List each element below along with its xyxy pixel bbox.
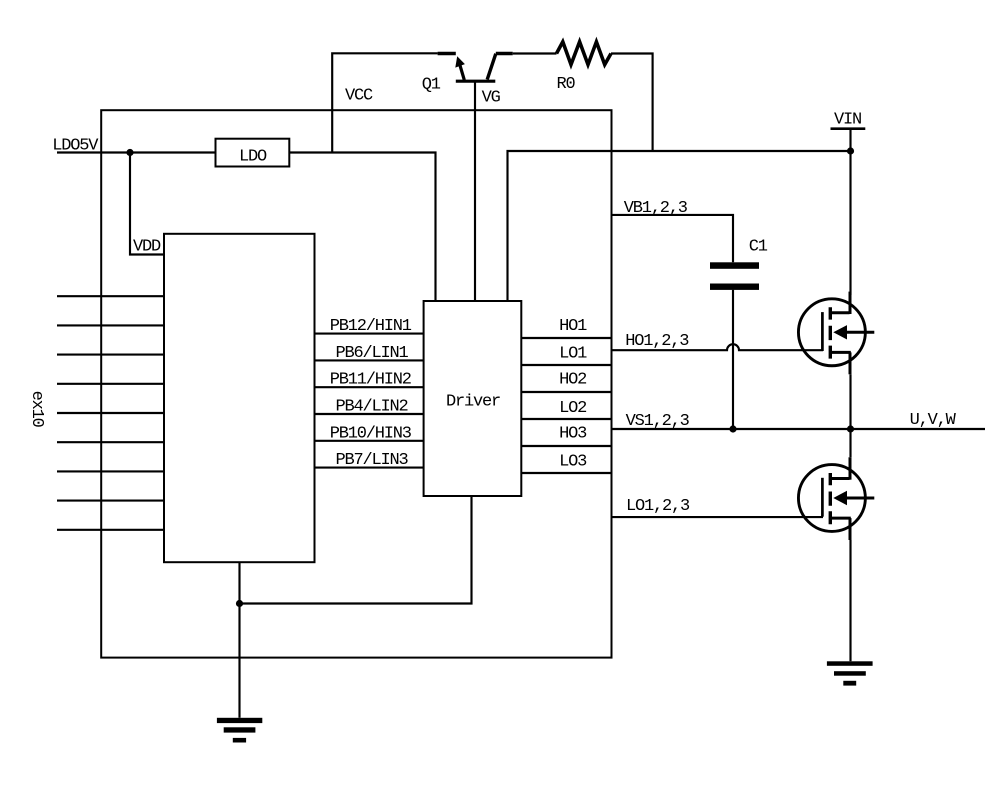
svg-text:LDO: LDO	[239, 148, 267, 167]
wire Q1 to R0	[513, 52, 557, 54]
transistor lower NMOS	[798, 457, 874, 540]
regulator LDO box	[216, 139, 290, 167]
node junction dot LDO5V/VDD	[126, 149, 133, 156]
wire PB12/HIN1	[315, 333, 424, 335]
wire PB10/HIN3	[315, 440, 424, 442]
wire LO1 stub	[521, 364, 611, 366]
wire VG	[474, 81, 476, 301]
wire LO2 stub	[521, 418, 611, 420]
capacitor C1	[710, 262, 759, 290]
wire HO2 stub	[521, 391, 611, 393]
wire lower NMOS source to ground	[849, 540, 851, 661]
wire LO3 stub	[521, 472, 611, 474]
svg-text:R0: R0	[557, 75, 576, 94]
svg-text:HO3: HO3	[559, 424, 587, 443]
svg-text:C1: C1	[749, 238, 768, 257]
wire driver ground	[240, 496, 472, 604]
wire input line 5	[57, 412, 164, 414]
svg-text:VB1,2,3: VB1,2,3	[624, 199, 688, 218]
svg-text:PB7/LIN3: PB7/LIN3	[336, 451, 409, 470]
wire upper NMOS source to VS	[849, 374, 851, 429]
wire input line 6	[57, 441, 164, 443]
svg-text:VDD: VDD	[133, 238, 161, 257]
wire PB11/HIN2	[315, 386, 424, 388]
wire input line 4	[57, 383, 164, 385]
wire VB1,2,3	[612, 215, 734, 262]
wire MCU ground	[238, 562, 240, 718]
wire VG-supply horizontal to VIN	[508, 151, 851, 301]
wire input line 8	[57, 500, 164, 502]
wire input line 9	[57, 529, 164, 531]
svg-text:LO2: LO2	[559, 399, 586, 418]
svg-text:PB11/HIN2: PB11/HIN2	[330, 371, 411, 390]
svg-text:VG: VG	[482, 89, 501, 108]
svg-text:LDO5V: LDO5V	[52, 137, 99, 156]
wire VIN lead down	[849, 129, 851, 295]
wire input line 2	[57, 324, 164, 326]
svg-text:LO3: LO3	[559, 453, 587, 472]
svg-text:U,V,W: U,V,W	[910, 411, 957, 430]
wire LO1,2,3	[612, 516, 824, 518]
wire VDD branch	[130, 153, 164, 255]
wire LDO5V input	[57, 151, 216, 153]
wire input line 1	[57, 295, 164, 297]
ground left	[217, 718, 262, 743]
svg-text:PB12/HIN1: PB12/HIN1	[330, 317, 412, 336]
wire input line 3	[57, 354, 164, 356]
node junction dot ground	[236, 600, 243, 607]
node junction dot C1/VS	[729, 425, 736, 432]
wire HO1 stub	[521, 337, 611, 339]
svg-text:PB6/LIN1: PB6/LIN1	[336, 344, 409, 363]
wire LDO output to Driver	[290, 153, 436, 302]
svg-text:VCC: VCC	[345, 87, 373, 106]
node junction dot VIN	[847, 147, 854, 154]
svg-text:VS1,2,3: VS1,2,3	[626, 412, 690, 431]
transistor Q1	[438, 54, 513, 82]
wire HO3 stub	[521, 445, 611, 447]
ground right	[827, 661, 873, 685]
wire R0 right corner down	[611, 54, 653, 152]
svg-text:HO1,2,3: HO1,2,3	[625, 332, 689, 351]
wire input line 7	[57, 470, 164, 472]
resistor R0	[557, 42, 612, 65]
svg-text:VIN: VIN	[834, 111, 861, 130]
svg-text:LO1,2,3: LO1,2,3	[626, 497, 690, 516]
driver U1 box	[424, 301, 522, 496]
node junction dot VS/MOSFET	[847, 425, 854, 432]
wire HO1,2,3 with hop	[612, 344, 824, 350]
svg-text:ex10: ex10	[27, 391, 46, 428]
wire VS1,2,3 to U,V,W	[612, 428, 986, 430]
IC package outline box	[101, 110, 611, 657]
svg-text:HO2: HO2	[559, 371, 586, 390]
svg-text:LO1: LO1	[559, 344, 587, 363]
wire PB7/LIN3	[315, 467, 424, 469]
svg-text:HO1: HO1	[559, 317, 587, 336]
svg-text:PB10/HIN3: PB10/HIN3	[330, 424, 412, 443]
svg-text:PB4/LIN2: PB4/LIN2	[336, 398, 408, 417]
wire PB6/LIN1	[315, 359, 424, 361]
MCU box	[164, 234, 315, 562]
wire PB4/LIN2	[315, 413, 424, 415]
wire lower NMOS drain to VS	[849, 429, 851, 457]
svg-text:Driver: Driver	[446, 392, 500, 411]
transistor upper NMOS	[798, 292, 874, 375]
wire VCC	[332, 53, 437, 152]
wire C1 bottom lead	[732, 290, 734, 429]
svg-text:Q1: Q1	[422, 76, 441, 95]
